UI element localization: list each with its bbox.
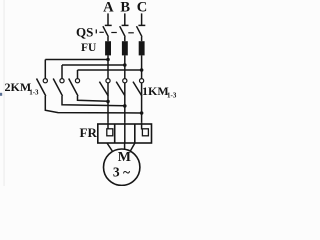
- svg-text:1-3: 1-3: [29, 89, 39, 97]
- svg-text:M: M: [118, 150, 131, 165]
- svg-text:C: C: [137, 0, 147, 16]
- svg-text:3 ~: 3 ~: [113, 165, 130, 180]
- svg-text:B: B: [120, 0, 130, 16]
- svg-text:FU: FU: [81, 42, 97, 54]
- svg-text:1KM: 1KM: [142, 84, 169, 98]
- svg-text:1-3: 1-3: [167, 92, 177, 100]
- svg-text:A: A: [103, 0, 114, 16]
- svg-text:2KM: 2KM: [5, 80, 32, 94]
- svg-text:FR: FR: [80, 125, 98, 140]
- svg-text:QS: QS: [76, 25, 93, 40]
